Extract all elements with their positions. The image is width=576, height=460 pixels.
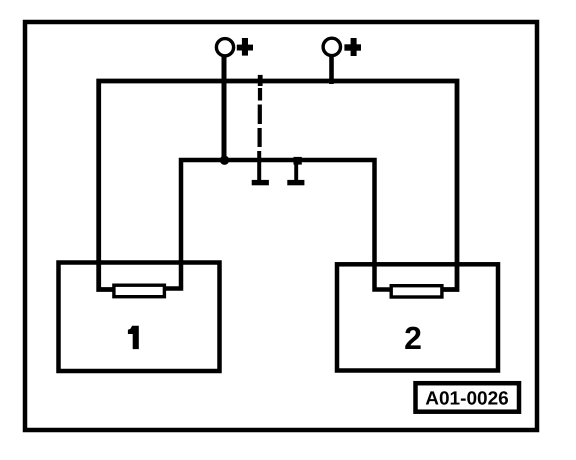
svg-text:A01-0026: A01-0026 — [425, 388, 508, 409]
svg-text:2: 2 — [404, 320, 422, 356]
